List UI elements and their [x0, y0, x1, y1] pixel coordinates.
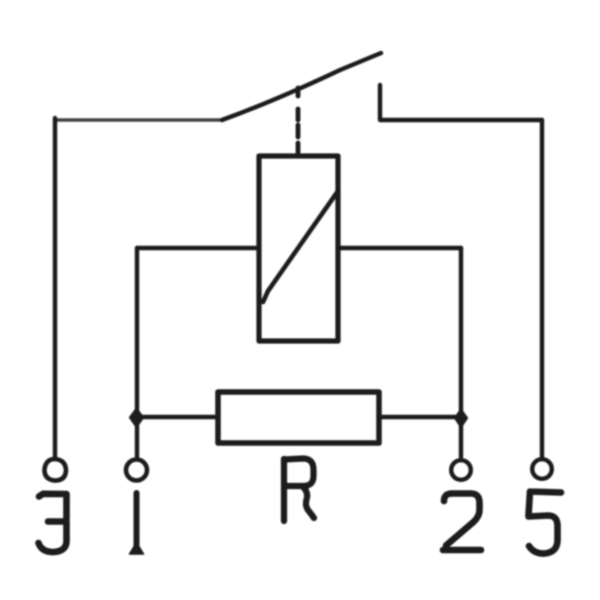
- terminal 5 circle: [532, 459, 552, 479]
- wire right vertical to terminal 5: [540, 120, 544, 457]
- junction dot at node 1 / resistor left: [130, 409, 143, 427]
- terminal 1 circle: [126, 460, 147, 481]
- switch S arm (moving contact blade): [222, 53, 381, 120]
- dashed actuator link between switch and coil: [296, 88, 301, 155]
- junction dot at node 2 / resistor right: [455, 410, 467, 427]
- wire top-right horizontal: [380, 118, 542, 122]
- wire left vertical to terminal 3: [53, 118, 57, 457]
- label 5: [529, 492, 562, 554]
- terminal 2 circle: [451, 460, 471, 480]
- wire resistor right: [379, 415, 461, 419]
- wire coil right: [338, 246, 461, 250]
- switch S fixed contact pin: [378, 85, 382, 119]
- relay coil K slash: [263, 191, 338, 302]
- wire right vertical to terminal 2: [459, 248, 463, 457]
- terminal 3 circle: [44, 459, 66, 481]
- wire left vertical to terminal 1: [135, 248, 139, 457]
- relay coil K body: [259, 156, 338, 341]
- label 3: [39, 494, 67, 552]
- resistor R body: [218, 392, 379, 443]
- label 2: [443, 494, 481, 551]
- wire resistor left: [137, 415, 218, 419]
- wire top-left horizontal: [55, 118, 222, 121]
- label 1: [130, 493, 144, 554]
- wire coil left: [137, 246, 259, 250]
- label R: [284, 459, 314, 522]
